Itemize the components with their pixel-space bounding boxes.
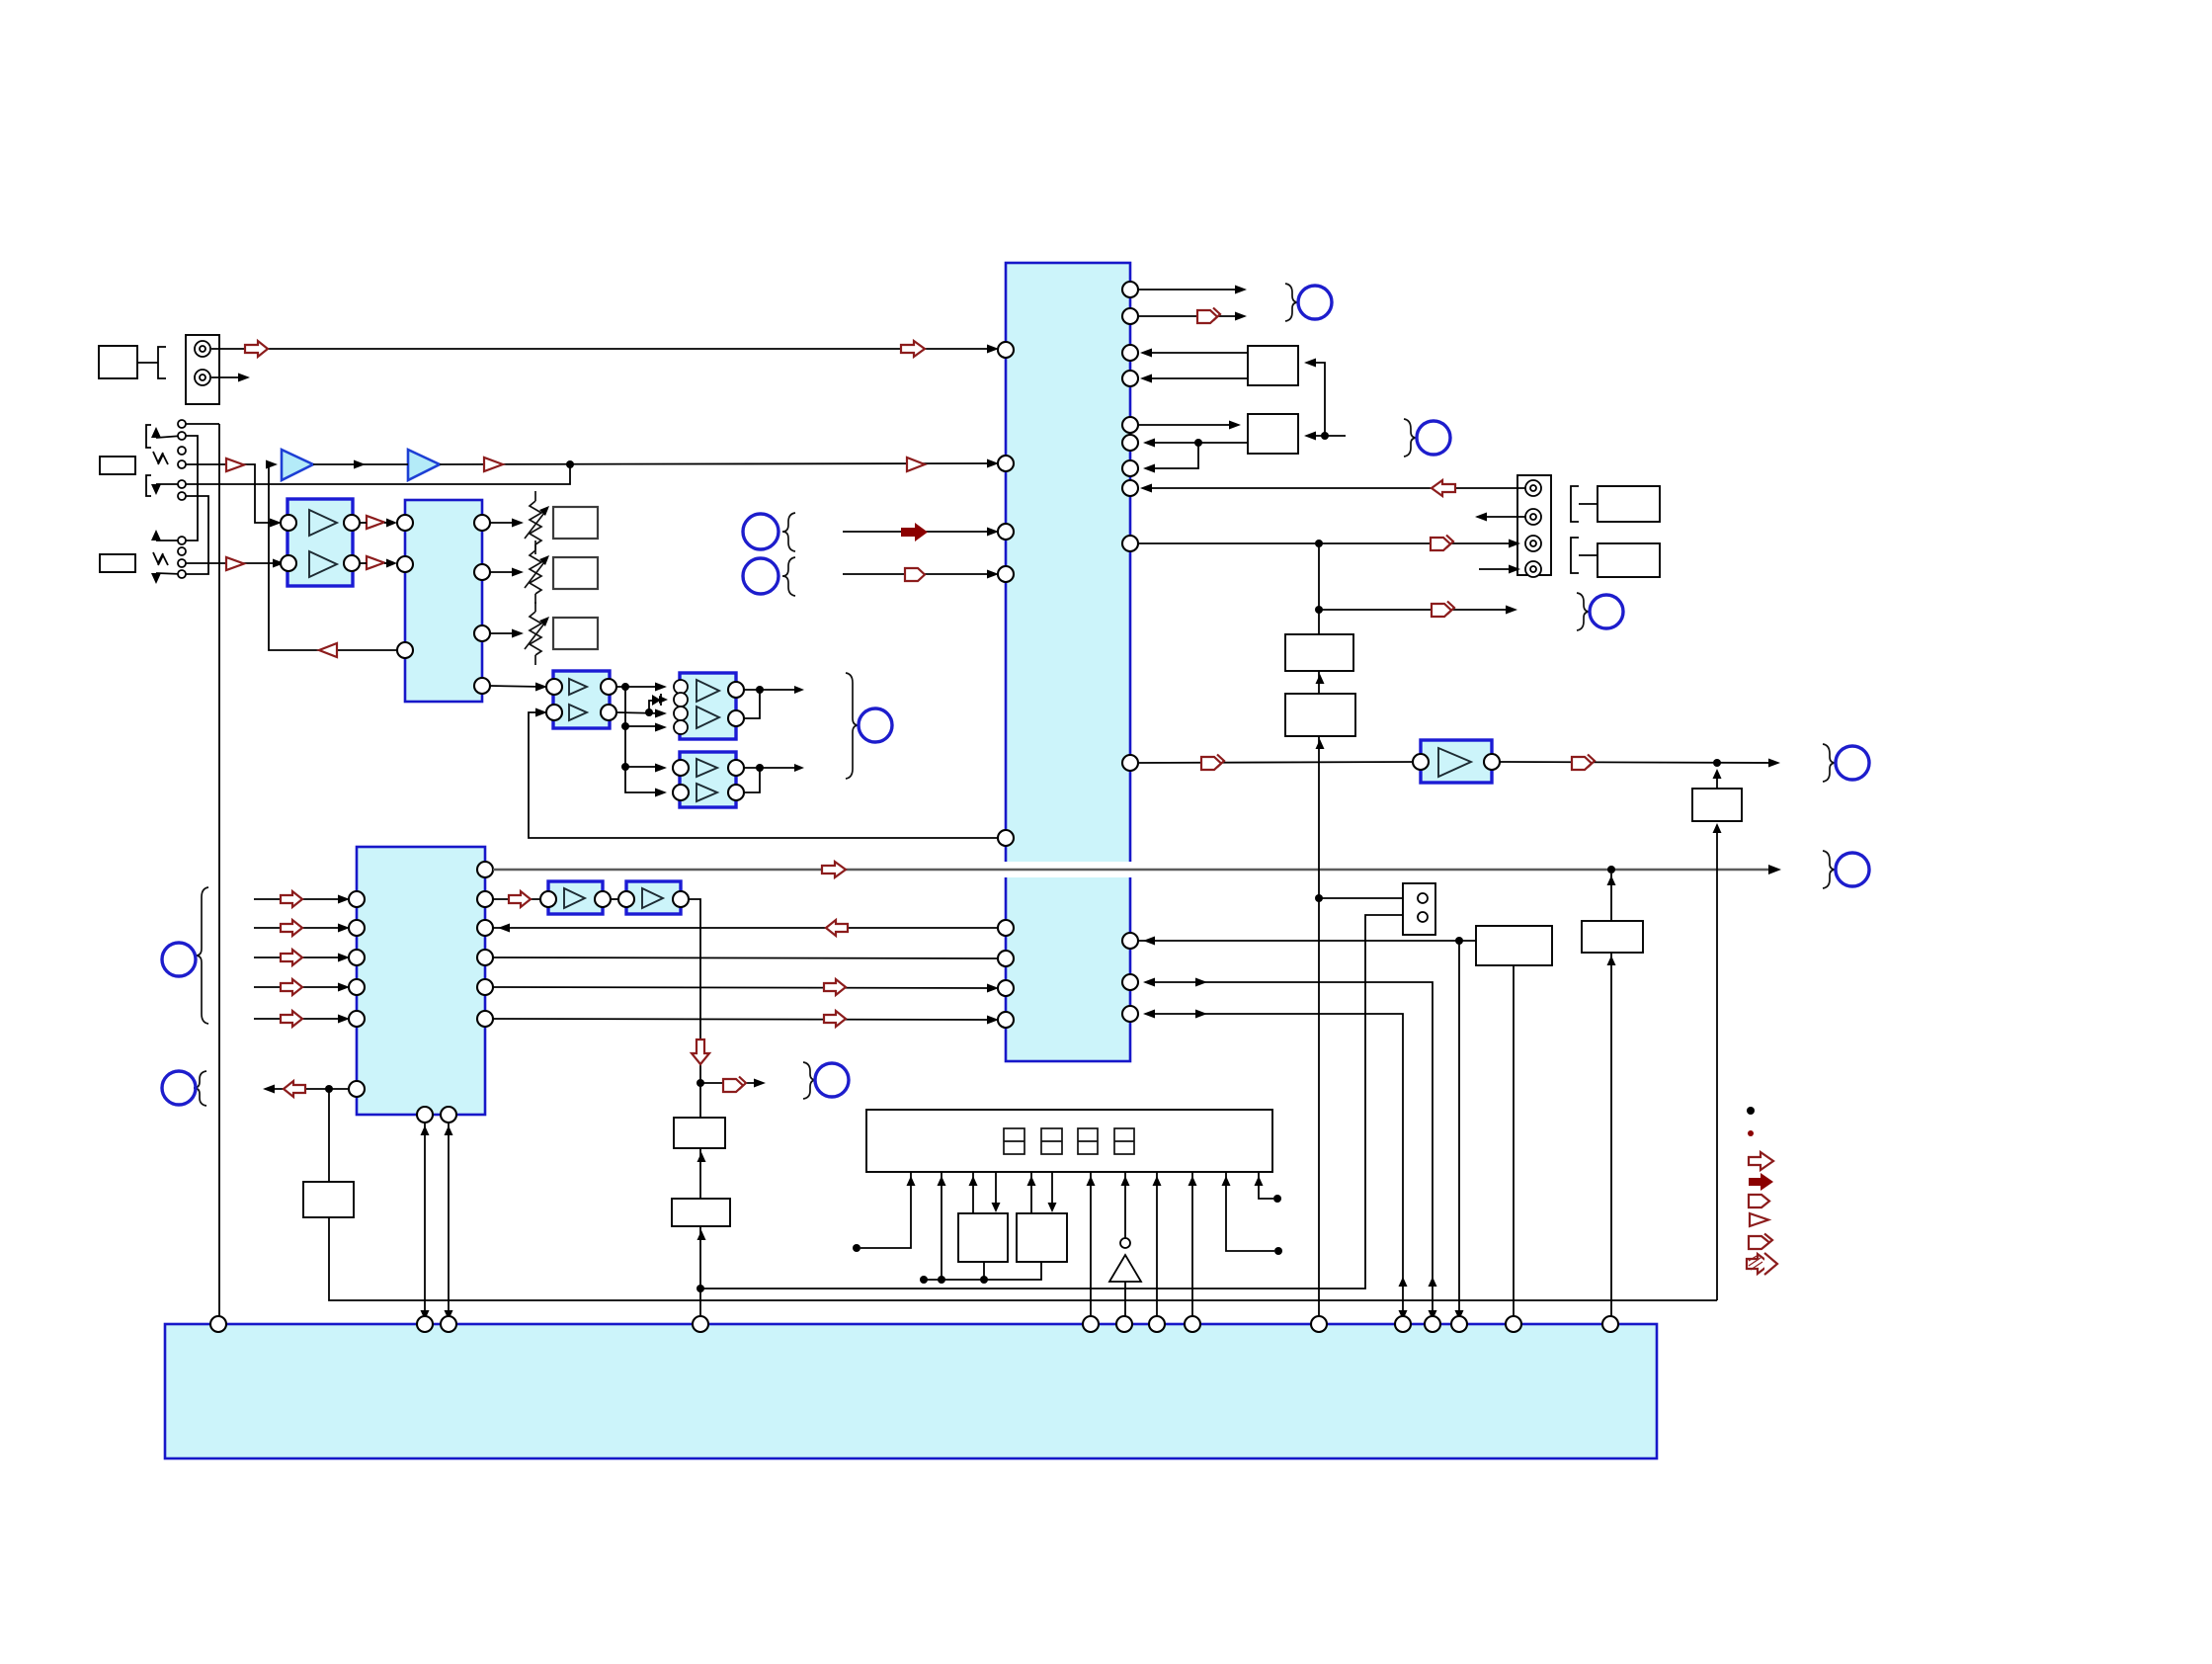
input wire 4	[254, 979, 350, 995]
legend open triangle	[1750, 1213, 1768, 1226]
brace record group (left lower)	[194, 1071, 206, 1106]
wire block6a to block6b	[611, 898, 626, 900]
box G (power sw)	[1582, 921, 1643, 953]
op-amp U9 buffer block6b	[626, 881, 681, 914]
bracket speaker L	[1571, 538, 1598, 573]
brace line out	[1823, 744, 1836, 782]
7seg digit 1	[1004, 1128, 1024, 1154]
wire block6 to block6a	[493, 891, 548, 907]
wire CN2 to U1 y494	[1140, 480, 1525, 496]
op-amp U7 headphone amp block5	[680, 752, 736, 807]
plug bracket P1	[137, 347, 166, 378]
RCA connector CN2	[1517, 475, 1551, 577]
box BA antenna (top left)	[99, 346, 137, 378]
wire U1 y772 to F0	[1138, 755, 1421, 771]
gray system bus wire	[493, 865, 1781, 874]
display wire 11 stub right	[1222, 1172, 1283, 1255]
wire box H down to bus line B	[329, 1217, 1717, 1300]
wire U1 y848 feedback to block3 in2	[529, 708, 998, 839]
connector circle CP1 (headphone)	[859, 708, 892, 742]
IC U2 audio processor block2	[405, 500, 482, 702]
diode D1 to block4 in2	[649, 694, 668, 712]
display wire 12 stub right	[1255, 1172, 1282, 1203]
display board	[866, 1110, 1272, 1172]
box EQ2	[553, 557, 598, 589]
block2 right pins	[474, 515, 490, 694]
block2 left pins	[397, 515, 413, 658]
block1 pins	[281, 515, 360, 571]
op-amp U4 dual buffer block1	[287, 499, 353, 586]
red triangle after A2	[484, 458, 503, 471]
block6 right pins	[477, 862, 493, 1027]
box EQ3	[553, 618, 598, 649]
box BC (left of J3)	[100, 554, 135, 572]
connector circle CP10 (line out)	[1836, 746, 1869, 780]
jack J1 (phones upper)	[146, 420, 186, 468]
display wire 5 from K2	[1027, 1172, 1036, 1213]
box E2	[1285, 694, 1355, 749]
legend tag arrow	[1749, 1195, 1769, 1207]
vertical bus from y550 junction	[1318, 543, 1320, 1324]
wire block6b down to mute chain	[689, 899, 700, 1324]
legend dot red	[1748, 1130, 1754, 1136]
input wire 3	[254, 950, 350, 965]
box EQ1	[553, 507, 598, 539]
F0 pins	[1413, 754, 1500, 770]
junction remote branch	[1315, 602, 1517, 618]
connector circle CP2 (aux L)	[743, 513, 795, 551]
red triangle block1 out2	[360, 556, 397, 569]
wire J2 (y490) joins amp output	[186, 464, 570, 484]
brace inputs group (left)	[196, 887, 208, 1024]
op-amp U6 headphone amp block4	[680, 673, 736, 739]
7seg digit 2	[1041, 1128, 1062, 1154]
op-amp U10 line out buffer F0	[1421, 740, 1492, 783]
pot VR1 row	[490, 491, 549, 554]
box F1 (relay)	[1692, 769, 1742, 1300]
junction y470/y490	[566, 460, 574, 468]
red triangle on y469 near U1	[907, 458, 925, 471]
legend hatched arrow	[1747, 1253, 1777, 1275]
junction mute branch	[696, 1077, 766, 1093]
box E1	[1285, 634, 1353, 684]
box K1 (key matrix)	[958, 1213, 1008, 1262]
display wire 4 to K1	[992, 1172, 1001, 1212]
red down arrow on mute chain	[692, 1040, 709, 1064]
wire junction 1477 to power bar	[1455, 941, 1464, 1324]
U1 left pins	[998, 342, 1014, 1028]
wire J1 out (y470) to block1	[186, 464, 282, 528]
connector circle CP5 (record out)	[162, 1071, 196, 1105]
brace digital out	[1285, 284, 1298, 321]
signal arrow on tuner wire	[245, 341, 268, 357]
junction gray bus to box G	[1607, 866, 1616, 921]
box BB (left of J1)	[100, 457, 135, 474]
wire CN1 lower stub	[211, 374, 250, 382]
wire F0 out to line connector	[1500, 755, 1780, 771]
wire block6 to timer box H	[328, 1089, 330, 1182]
block6 bottom pins	[417, 1107, 456, 1123]
junction dots block4/5 bus	[621, 683, 653, 771]
connector circle CP6 (mute)	[815, 1063, 849, 1097]
U1 right pins	[1122, 282, 1138, 1022]
amplifier A2 (blue triangle)	[408, 450, 440, 480]
wire U1 y994 loop to power bar	[1143, 978, 1437, 1325]
connector circle CP8 (digital)	[1298, 286, 1332, 319]
box K2 (key matrix 2)	[1017, 1213, 1067, 1262]
box H (reset)	[303, 1182, 354, 1217]
block6 left pins	[349, 891, 365, 1097]
feedback wire block2 to amp A1	[266, 460, 397, 651]
U1 out y293	[1138, 286, 1247, 294]
wire J3 out (y570) to block1 in2	[186, 559, 285, 568]
box SP1	[1598, 486, 1660, 522]
jack J2 (phones lower)	[146, 475, 186, 500]
brace remote	[1577, 593, 1590, 630]
wire amp A2 to U1 (y470)	[440, 459, 999, 468]
pot VR2 row	[490, 541, 549, 604]
display wire 1 (key scan)	[853, 1172, 916, 1252]
brace mute	[803, 1062, 816, 1099]
red arrow on gray bus	[822, 862, 846, 877]
record out wire from block6	[263, 1081, 349, 1097]
U1 out y320	[1138, 308, 1247, 324]
jack J3 contacts (lower cluster)	[151, 530, 186, 584]
tag arrow on aux2	[905, 568, 925, 581]
input wire 5	[254, 1011, 350, 1027]
wire block6 row939 from U1	[493, 920, 998, 936]
power supply board bottom bar	[165, 1324, 1657, 1458]
brace headphone group	[846, 673, 859, 779]
bracket speaker R	[1571, 486, 1598, 522]
signal triangle on y570	[226, 557, 244, 570]
wire U1 to B2	[1138, 421, 1241, 430]
IC U3 input selector block6	[357, 847, 485, 1115]
op-amp U8 buffer block6a	[548, 881, 603, 914]
CN2 pin4 stub	[1479, 565, 1520, 574]
wire block6 row969 to U1	[493, 957, 998, 958]
legend open arrow	[1749, 1152, 1773, 1170]
connector circle CP4 (control in)	[162, 943, 196, 976]
box J (protection)	[672, 1199, 730, 1240]
wire box W to power bar	[1513, 965, 1515, 1324]
wire J1 tip to left bus	[186, 423, 219, 425]
block5 output join	[744, 764, 804, 792]
block6 bottom bus wire 2	[445, 1123, 453, 1324]
pot VR3 row	[490, 602, 549, 665]
wire block6 row999 to U1	[493, 979, 999, 995]
wire block3 out2 to block4 in3	[616, 709, 667, 718]
key matrix common line	[920, 1262, 1041, 1284]
wire CN1 to U1 pin (tuner out)	[211, 345, 999, 354]
red left triangle on feedback	[319, 643, 337, 657]
block6b pins	[618, 891, 689, 907]
signal arrow on tuner wire near U1	[901, 341, 925, 357]
legend dot black	[1747, 1107, 1755, 1115]
block4 output join	[744, 686, 804, 718]
legend filled arrow	[1749, 1173, 1773, 1191]
7seg digit 4	[1114, 1128, 1134, 1154]
brace clock connector	[1404, 419, 1417, 457]
display wire 6 to K2	[1048, 1172, 1057, 1212]
box SP2	[1598, 543, 1660, 577]
box I (mute drive)	[674, 1118, 725, 1162]
IC U1 main system control (tall cyan block)	[1006, 263, 1130, 1061]
display wire 10 long	[1188, 1172, 1197, 1324]
wire aux1 to U1	[843, 528, 999, 537]
CN2 pin2 stub	[1475, 513, 1525, 522]
wire block3 out1 to block4 in1	[616, 683, 667, 692]
connector circle CP7 (bus)	[1836, 853, 1869, 886]
wires B1 to U1	[1140, 349, 1248, 383]
block4 pins	[674, 680, 744, 734]
B2 out to U1 clk pins	[1143, 439, 1248, 473]
block5 pins	[673, 760, 744, 800]
white bridge for gray bus over U1	[1000, 862, 1136, 877]
junction to CN3	[1315, 894, 1415, 903]
amplifier A1 (blue triangle)	[282, 450, 313, 480]
wire box G to power bar	[1607, 953, 1616, 1324]
box B1 (X-tal)	[1248, 346, 1298, 385]
connector circle CP9 (remote)	[1590, 595, 1623, 628]
junction line A start	[696, 913, 1415, 1293]
wire amp A1 to amp A2	[313, 460, 408, 469]
op-amp U5 dual amp block3	[553, 671, 610, 728]
wire aux2 to U1	[843, 570, 999, 579]
7seg digit 3	[1078, 1128, 1098, 1154]
input wire 2	[254, 920, 350, 936]
display wire 8 with inverter Q1	[1109, 1172, 1141, 1324]
connector CN3 (2 pin)	[1403, 883, 1435, 935]
input wires to block6	[254, 891, 350, 907]
display wire 2	[938, 1172, 946, 1280]
signal triangle on y470	[226, 458, 244, 471]
power bar top pins	[210, 1316, 1618, 1332]
box W (regulator)	[1476, 926, 1552, 965]
wire U1 y1026 loop to power bar	[1143, 1010, 1408, 1325]
wire U1 y952 to box W	[1138, 937, 1476, 946]
connector CN1 (top left, two RCA)	[186, 335, 219, 404]
display wire 9 long	[1153, 1172, 1162, 1324]
wire U1 y550 to CN2	[1138, 536, 1520, 551]
legend tag chevron arrow	[1749, 1234, 1772, 1250]
wire block6 row1031 to U1	[493, 1011, 999, 1027]
connector circle CP3 (aux R)	[743, 557, 795, 596]
box B2 (X-tal 2)	[1248, 414, 1298, 454]
block6a pins	[540, 891, 611, 907]
left bus vertical to power bar	[218, 424, 220, 1324]
display wire 7 long	[1087, 1172, 1096, 1324]
block3 pins	[546, 679, 616, 720]
wire block2 out4 to block3	[490, 683, 547, 692]
connector circle CP11 (clock)	[1417, 421, 1450, 455]
display wire 3 from K1	[969, 1172, 978, 1213]
wire J1 ring loop down	[186, 436, 198, 541]
loop B1 to B2	[1304, 359, 1346, 441]
wire J2 sleeve loop down	[186, 496, 208, 574]
filled maroon arrow on aux1	[901, 523, 928, 541]
block6 bottom bus wires	[421, 1123, 430, 1324]
red triangle block1 out1	[360, 516, 397, 529]
brace gray bus end	[1823, 851, 1836, 888]
branch bus block4/5 left	[625, 687, 667, 797]
